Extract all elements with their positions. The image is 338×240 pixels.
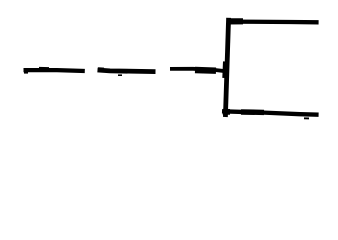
wire: dash 2 leading bump: [98, 67, 104, 70]
wire: dash 2 lower tick: [118, 74, 122, 76]
node A: junction blob on vertical bar at wire entry: [222, 62, 228, 79]
wire: dash 3 thick blob: [195, 67, 216, 74]
wire: dashed centerline, dash 1: [24, 68, 85, 73]
wire: bottom line small tick below: [304, 117, 309, 119]
wire: dashed centerline, dash 2: [98, 70, 156, 72]
wire: bracket top-left corner blob: [227, 18, 244, 24]
wire: dash 1 raised plateau: [39, 67, 49, 70]
wire: bracket top horizontal line: [227, 19, 319, 24]
wire: bracket vertical bar (left side of open box): [225, 18, 228, 117]
wire: bracket bottom-left corner blob: [223, 109, 230, 115]
wire: bracket bottom horizontal line: [222, 111, 319, 114]
wire: dashed centerline, dash 3 (connects to bracket): [170, 69, 226, 71]
wire: bottom line mid blob: [241, 109, 264, 115]
wire: dash 1 start tick: [24, 72, 28, 74]
